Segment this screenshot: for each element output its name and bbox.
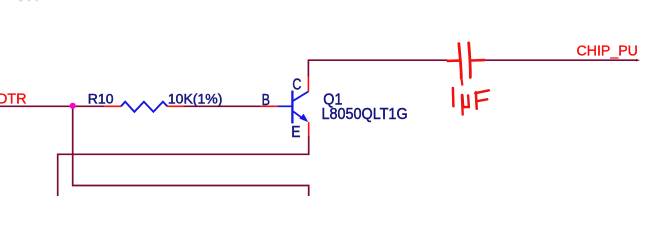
svg-text:CHIP_PU: CHIP_PU: [577, 43, 638, 59]
svg-text:DTR: DTR: [0, 92, 27, 108]
svg-text:10K(1%): 10K(1%): [168, 90, 222, 106]
svg-text:L8050QLT1G: L8050QLT1G: [321, 105, 407, 123]
svg-text:C: C: [292, 76, 301, 94]
svg-text:E: E: [291, 123, 300, 141]
svg-text:R10: R10: [88, 90, 114, 106]
svg-text:B: B: [262, 92, 270, 110]
